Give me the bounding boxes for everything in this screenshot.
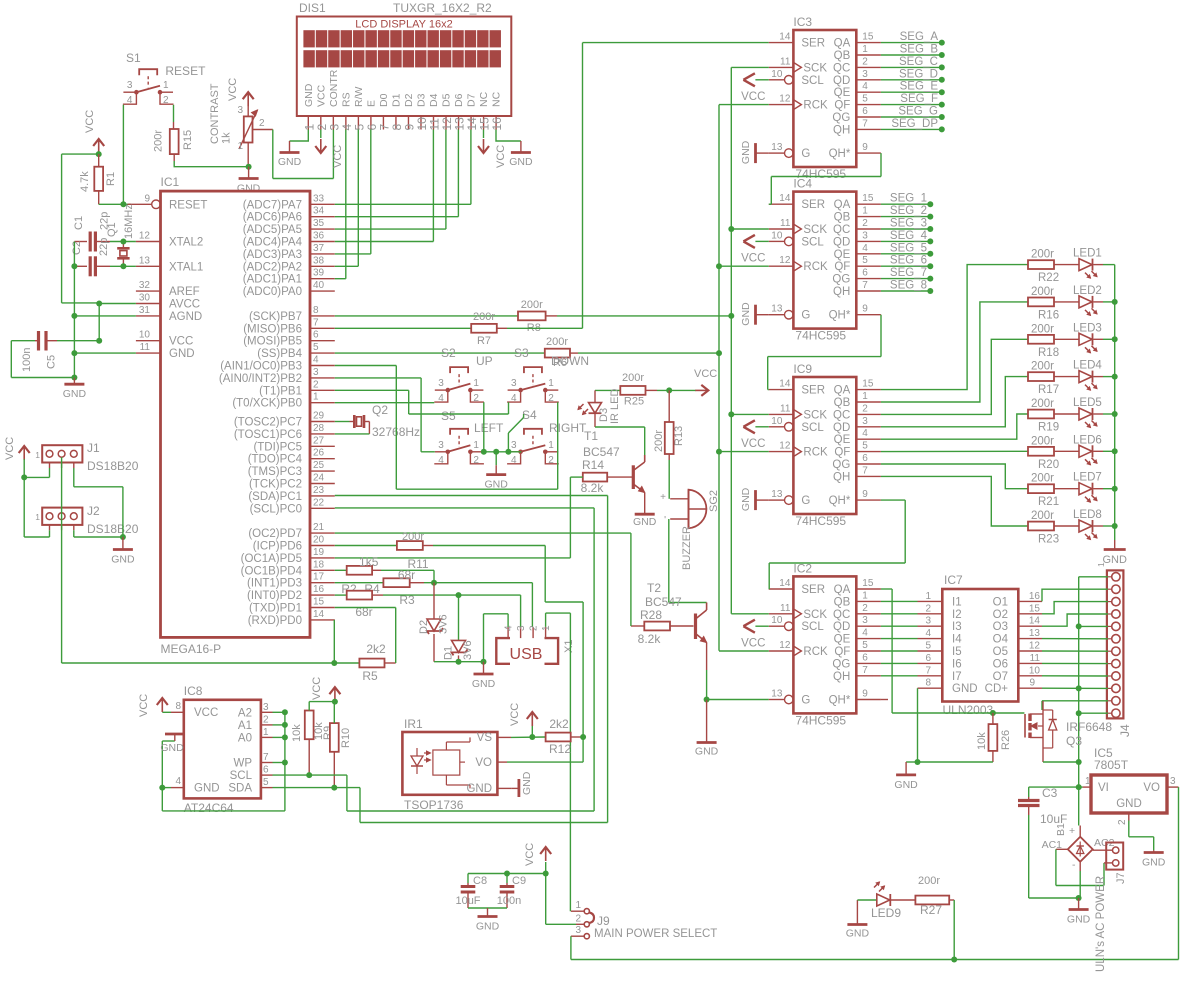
svg-text:BC547: BC547 bbox=[645, 595, 682, 609]
connector X1 USB bbox=[496, 625, 575, 664]
svg-text:3: 3 bbox=[511, 378, 517, 389]
junction VCC pin bbox=[96, 338, 102, 344]
svg-text:ULN2003: ULN2003 bbox=[943, 703, 994, 717]
wire PA3 to LCD bbox=[335, 253, 371, 255]
svg-text:1: 1 bbox=[237, 141, 243, 152]
resistor R9 10k bbox=[291, 702, 334, 776]
wire IC2 QH* stub bbox=[881, 699, 888, 701]
svg-text:D3: D3 bbox=[415, 93, 427, 107]
svg-text:R10: R10 bbox=[340, 728, 352, 748]
svg-text:7: 7 bbox=[862, 465, 868, 476]
svg-text:VCC: VCC bbox=[315, 84, 327, 107]
svg-text:3: 3 bbox=[237, 105, 243, 116]
svg-text:S5: S5 bbox=[441, 409, 456, 423]
diode LED1 bbox=[1054, 248, 1103, 279]
svg-text:1: 1 bbox=[473, 440, 479, 451]
svg-text:18: 18 bbox=[313, 559, 325, 570]
supply VCC arrow right bbox=[694, 368, 717, 396]
junction A0 bbox=[282, 734, 288, 740]
bridge rectifier B1 bbox=[1042, 823, 1115, 871]
svg-text:AGND: AGND bbox=[169, 311, 202, 323]
svg-text:28: 28 bbox=[313, 423, 325, 434]
wire CD+ to J4 pin10 bbox=[1042, 687, 1108, 689]
svg-text:7: 7 bbox=[862, 280, 868, 291]
svg-text:2: 2 bbox=[313, 379, 319, 390]
svg-text:LED5: LED5 bbox=[1073, 397, 1102, 409]
bus SCK vertical bbox=[730, 67, 732, 613]
svg-text:QD: QD bbox=[833, 621, 850, 633]
svg-text:R23: R23 bbox=[1038, 534, 1059, 546]
svg-text:R21: R21 bbox=[1038, 496, 1059, 508]
transistor T1 BC547 bbox=[583, 429, 645, 505]
svg-text:VCC: VCC bbox=[84, 110, 96, 133]
net label SEG_8 bbox=[881, 280, 933, 295]
svg-text:200r: 200r bbox=[1031, 249, 1054, 261]
svg-text:GND: GND bbox=[1116, 798, 1142, 810]
junction USB ground bbox=[481, 659, 487, 665]
svg-text:1: 1 bbox=[862, 44, 868, 55]
svg-text:VCC: VCC bbox=[524, 843, 536, 866]
resistor R11 200r bbox=[335, 531, 433, 571]
wire R26 to ground bbox=[918, 761, 993, 763]
svg-text:R5: R5 bbox=[362, 669, 378, 683]
svg-text:CONTR: CONTR bbox=[328, 69, 340, 107]
wire DS18B20 data line bbox=[62, 457, 335, 663]
wire PB3 to S4 chain bbox=[335, 366, 558, 490]
wire IC9 QH to R23 bbox=[881, 476, 1028, 526]
svg-text:LED7: LED7 bbox=[1073, 472, 1102, 484]
wire LCD pin12 to PA5 bbox=[445, 130, 447, 230]
wire PA4 to LCD bbox=[335, 241, 434, 243]
svg-text:7: 7 bbox=[263, 752, 269, 763]
wire IC9 QF to R20 bbox=[881, 450, 1028, 452]
svg-text:QH: QH bbox=[833, 671, 850, 683]
svg-text:QC: QC bbox=[833, 224, 850, 236]
svg-text:VS: VS bbox=[477, 732, 493, 744]
svg-text:13: 13 bbox=[771, 304, 783, 315]
svg-text:2: 2 bbox=[862, 403, 868, 414]
svg-text:11: 11 bbox=[140, 342, 151, 353]
svg-text:29: 29 bbox=[313, 411, 325, 422]
resistor R26 10k bbox=[976, 713, 1012, 762]
svg-text:4: 4 bbox=[862, 81, 868, 92]
wire LCD pin6 to PA3 bbox=[370, 130, 372, 254]
svg-text:(INT0)PD2: (INT0)PD2 bbox=[247, 590, 302, 602]
svg-text:200r: 200r bbox=[153, 130, 165, 152]
svg-text:D4: D4 bbox=[428, 93, 440, 107]
wire IC7 GND to ground bbox=[906, 688, 917, 762]
svg-text:6: 6 bbox=[263, 765, 269, 776]
wire SDA net to IC1 bbox=[273, 496, 608, 823]
wire D minus to USB pin2 bbox=[424, 583, 532, 627]
wire LCD pin5 to PA2 bbox=[357, 130, 359, 267]
svg-text:T1: T1 bbox=[584, 429, 598, 443]
svg-text:(SS)PB4: (SS)PB4 bbox=[257, 348, 302, 360]
svg-text:O1: O1 bbox=[993, 596, 1008, 608]
junction J4 pin10 bbox=[1076, 685, 1082, 691]
SCL arrow marker at IC4 pin 10 bbox=[743, 235, 768, 248]
net label SEG_A bbox=[881, 31, 945, 46]
svg-text:C5: C5 bbox=[46, 355, 58, 369]
svg-text:LED3: LED3 bbox=[1073, 322, 1102, 334]
junction VCC J9 bbox=[543, 871, 549, 877]
switch S4 RIGHT bbox=[507, 408, 587, 466]
svg-text:3: 3 bbox=[313, 367, 319, 378]
wire RCK bus to IC2 pin12 bbox=[719, 650, 769, 652]
svg-text:D0: D0 bbox=[378, 93, 390, 107]
junction A2 bbox=[282, 709, 288, 715]
svg-text:5: 5 bbox=[925, 641, 931, 652]
svg-text:LEFT: LEFT bbox=[474, 421, 504, 435]
svg-text:3: 3 bbox=[862, 69, 868, 80]
svg-text:200r: 200r bbox=[918, 875, 940, 887]
svg-text:QH: QH bbox=[833, 286, 850, 298]
svg-text:1: 1 bbox=[548, 440, 554, 451]
svg-text:10k: 10k bbox=[976, 732, 988, 750]
wire IC4 QH* to IC9 SER bbox=[768, 315, 881, 390]
svg-text:TUXGR_16X2_R2: TUXGR_16X2_R2 bbox=[393, 1, 492, 15]
diode LED2 bbox=[1054, 285, 1103, 316]
junction RCK IC9 bbox=[716, 449, 722, 455]
ground GND C8 C9 bbox=[478, 915, 498, 918]
svg-text:RCK: RCK bbox=[803, 447, 828, 459]
svg-text:R27: R27 bbox=[920, 903, 942, 917]
resistor R20 200r bbox=[1028, 435, 1059, 471]
svg-text:RESET: RESET bbox=[169, 199, 207, 211]
svg-text:QB: QB bbox=[834, 596, 851, 608]
svg-text:1k5: 1k5 bbox=[359, 555, 379, 569]
SCL arrow marker at IC2 pin 10 bbox=[743, 620, 768, 633]
svg-text:39: 39 bbox=[313, 268, 325, 279]
svg-text:QF: QF bbox=[834, 261, 850, 273]
svg-text:GND: GND bbox=[1067, 914, 1091, 926]
svg-text:(OC1A)PD5: (OC1A)PD5 bbox=[241, 553, 302, 565]
svg-text:200r: 200r bbox=[1031, 361, 1054, 373]
svg-text:GND: GND bbox=[485, 479, 509, 491]
junction AVCC bbox=[96, 301, 102, 307]
wire PD7 to R28 bbox=[335, 533, 631, 626]
resistor R10 10k bbox=[330, 702, 352, 788]
svg-text:J4: J4 bbox=[1118, 724, 1132, 737]
svg-text:(ICP)PD6: (ICP)PD6 bbox=[253, 541, 302, 553]
svg-text:XTAL1: XTAL1 bbox=[169, 261, 203, 273]
junction pot pin1 node bbox=[246, 164, 252, 170]
svg-text:ULN's AC POWER: ULN's AC POWER bbox=[1095, 876, 1107, 972]
svg-text:O3: O3 bbox=[993, 621, 1008, 633]
svg-text:4: 4 bbox=[127, 95, 133, 106]
svg-text:G: G bbox=[801, 148, 810, 160]
wire RCK bus to IC3 pin12 bbox=[719, 104, 769, 106]
svg-text:D2: D2 bbox=[403, 93, 415, 107]
svg-text:QE: QE bbox=[834, 87, 851, 99]
wire IR VO to net bbox=[507, 737, 583, 762]
svg-text:9: 9 bbox=[862, 142, 868, 153]
svg-text:RIGHT: RIGHT bbox=[549, 421, 587, 435]
shift register IC2 74HC595 bbox=[769, 561, 881, 727]
wire LED2 to cathode bus bbox=[1103, 301, 1115, 303]
supply VCC arrow at R12 bbox=[509, 703, 538, 737]
wire O3 to J4 pin4 bbox=[1042, 614, 1108, 626]
svg-text:QH*: QH* bbox=[829, 310, 851, 322]
switch S2 UP bbox=[434, 346, 492, 404]
svg-text:QG: QG bbox=[832, 658, 850, 670]
svg-text:LED4: LED4 bbox=[1073, 360, 1102, 372]
svg-text:10: 10 bbox=[1029, 665, 1041, 676]
svg-text:37: 37 bbox=[313, 243, 325, 254]
junction D plus bbox=[456, 592, 462, 598]
driver IC7 ULN2003 bbox=[918, 573, 1043, 717]
svg-text:GND: GND bbox=[695, 746, 719, 758]
svg-text:(ADC4)PA4: (ADC4)PA4 bbox=[243, 237, 303, 249]
svg-text:200r: 200r bbox=[521, 299, 543, 311]
svg-text:VCC: VCC bbox=[694, 368, 717, 380]
svg-text:14: 14 bbox=[1029, 616, 1041, 627]
svg-text:6: 6 bbox=[862, 652, 868, 663]
junction LED bus 6 bbox=[1112, 448, 1118, 454]
svg-text:LED1: LED1 bbox=[1073, 248, 1102, 260]
svg-text:8: 8 bbox=[925, 678, 931, 689]
svg-text:I6: I6 bbox=[952, 658, 962, 670]
junction IC8 ground bbox=[159, 785, 165, 791]
svg-text:R19: R19 bbox=[1038, 422, 1059, 434]
svg-text:1: 1 bbox=[862, 590, 868, 601]
svg-text:GND: GND bbox=[952, 683, 978, 695]
net label SEG_G bbox=[881, 106, 945, 121]
svg-text:13: 13 bbox=[771, 489, 783, 500]
ground GND at LCD pin1 bbox=[278, 130, 308, 169]
ground GND regulator bbox=[1144, 851, 1164, 854]
connector J2 DS18B20 bbox=[35, 504, 138, 536]
junction A1 bbox=[282, 722, 288, 728]
svg-text:11: 11 bbox=[780, 56, 791, 67]
svg-text:QH*: QH* bbox=[829, 495, 851, 507]
resistor R25 200r bbox=[595, 372, 657, 408]
junction C9 top bbox=[504, 871, 510, 877]
svg-text:74HC595: 74HC595 bbox=[795, 713, 846, 727]
svg-text:G: G bbox=[801, 310, 810, 322]
wire LCD pin11 to PA4 bbox=[432, 130, 434, 242]
svg-text:QH*: QH* bbox=[829, 148, 851, 160]
wire bridge minus to ground bbox=[1079, 862, 1081, 898]
wire C3 top to VI bbox=[1029, 786, 1079, 788]
wire Q3 drain to J4 pin11 bbox=[1042, 701, 1108, 710]
wire XTAL1 net bbox=[110, 265, 136, 267]
svg-text:1: 1 bbox=[862, 206, 868, 217]
LCD display DIS1 TUXGR_16X2_R2 bbox=[297, 1, 512, 116]
svg-text:3: 3 bbox=[1170, 776, 1176, 787]
svg-text:GND: GND bbox=[846, 928, 870, 940]
svg-text:68r: 68r bbox=[398, 568, 415, 582]
svg-text:SEG_DP: SEG_DP bbox=[891, 118, 938, 130]
junction J4 pin12 bbox=[1076, 710, 1082, 716]
svg-text:22p: 22p bbox=[98, 238, 110, 256]
wire SCK bus to IC3 pin11 bbox=[731, 66, 769, 68]
junction R5 PD0 bbox=[331, 660, 337, 666]
wire C8 C9 bottoms to ground bbox=[468, 908, 507, 917]
svg-text:13: 13 bbox=[771, 689, 783, 700]
ground GND T1 emitter bbox=[633, 505, 657, 528]
SCL arrow marker at IC9 pin 10 bbox=[743, 420, 768, 433]
svg-text:IRF6648: IRF6648 bbox=[1066, 720, 1112, 734]
svg-text:15: 15 bbox=[862, 578, 874, 589]
svg-text:UP: UP bbox=[476, 354, 493, 368]
junction SCL R9 bbox=[306, 772, 312, 778]
svg-text:GND: GND bbox=[740, 302, 752, 326]
resistor R27 200r bbox=[891, 875, 954, 917]
svg-text:16MHz: 16MHz bbox=[123, 204, 135, 239]
svg-text:SEG_B: SEG_B bbox=[900, 44, 939, 56]
junction SCK bus R8 bbox=[728, 313, 734, 319]
wire USB pin1 to power select bbox=[546, 613, 571, 911]
wire O5 to J4 pin7 bbox=[1042, 650, 1108, 652]
wire bridge AC2 to J7 pin1 bbox=[1093, 849, 1113, 851]
transistor T2 BC547 bbox=[645, 581, 707, 670]
svg-text:R26: R26 bbox=[1000, 730, 1012, 750]
wire IC9 QG to R21 bbox=[881, 464, 1028, 489]
junction Q3 rail bbox=[1076, 759, 1082, 765]
svg-text:(TDI)PC5: (TDI)PC5 bbox=[253, 441, 302, 453]
junction LED bus 3 bbox=[1112, 336, 1118, 342]
wire USB pin4 to ground bbox=[484, 614, 509, 662]
wire XTAL2 net bbox=[74, 242, 135, 267]
net label SEG_F bbox=[881, 93, 945, 108]
svg-text:VCC: VCC bbox=[138, 694, 150, 717]
svg-text:IC7: IC7 bbox=[944, 573, 963, 587]
svg-text:4: 4 bbox=[511, 393, 517, 404]
svg-text:31: 31 bbox=[139, 305, 151, 316]
junction GND pin bbox=[71, 350, 77, 356]
svg-text:4.7k: 4.7k bbox=[79, 171, 91, 192]
svg-text:74HC595: 74HC595 bbox=[795, 329, 846, 343]
wire D3 cathode to T1 collector bbox=[595, 427, 645, 455]
svg-text:SEG_5: SEG_5 bbox=[890, 242, 927, 254]
wire O7 to J4 pin9 bbox=[1042, 675, 1108, 677]
diode D2 zener 3V6 bbox=[418, 583, 450, 662]
svg-text:QD: QD bbox=[833, 236, 850, 248]
svg-text:LCD DISPLAY 16x2: LCD DISPLAY 16x2 bbox=[355, 19, 452, 31]
svg-text:D2: D2 bbox=[418, 620, 430, 634]
shift register IC9 74HC595 bbox=[769, 362, 881, 528]
svg-text:38: 38 bbox=[313, 255, 325, 266]
svg-text:3: 3 bbox=[263, 702, 269, 713]
svg-text:VCC: VCC bbox=[4, 437, 16, 460]
svg-text:DS18B20: DS18B20 bbox=[87, 522, 139, 536]
wire R11 to IR receiver net bbox=[433, 546, 583, 738]
svg-text:C2: C2 bbox=[71, 241, 83, 255]
wire SCK bus to IC4 pin11 bbox=[731, 228, 769, 230]
svg-text:3: 3 bbox=[438, 378, 444, 389]
svg-text:(TOSC1)PC6: (TOSC1)PC6 bbox=[234, 429, 302, 441]
svg-text:10: 10 bbox=[771, 69, 783, 80]
ground GND at LCD pin16 bbox=[496, 130, 533, 169]
svg-text:R16: R16 bbox=[1038, 309, 1059, 321]
svg-text:C3: C3 bbox=[1042, 786, 1058, 800]
svg-text:': ' bbox=[664, 515, 666, 526]
svg-text:A1: A1 bbox=[238, 720, 252, 732]
svg-text:35: 35 bbox=[313, 218, 325, 229]
wire IC2 QA to gate net bbox=[881, 589, 1025, 713]
svg-text:(OC1B)PD4: (OC1B)PD4 bbox=[241, 565, 303, 577]
wire IC9 QA to R22 bbox=[881, 265, 1028, 390]
svg-text:1: 1 bbox=[1085, 776, 1091, 787]
svg-text:36: 36 bbox=[313, 231, 325, 242]
svg-text:1: 1 bbox=[548, 378, 554, 389]
junction WP bbox=[282, 760, 288, 766]
svg-text:GND: GND bbox=[472, 678, 496, 690]
wire S1 pin4 to RESET node bbox=[122, 105, 124, 205]
svg-text:2: 2 bbox=[473, 455, 479, 466]
resistor R16 200r bbox=[1028, 286, 1059, 322]
net label SEG_6 bbox=[881, 255, 933, 270]
svg-text:SEG_7: SEG_7 bbox=[890, 267, 927, 279]
buzzer SG2 bbox=[660, 490, 720, 570]
wire LCD pin14 to PA7 bbox=[470, 130, 472, 205]
wire IC9 QB to R16 bbox=[881, 302, 1028, 402]
svg-text:2: 2 bbox=[1117, 819, 1128, 825]
junction LED bus 8 bbox=[1112, 523, 1118, 529]
capacitor C5 100n bbox=[11, 331, 57, 372]
svg-text:G: G bbox=[801, 495, 810, 507]
svg-text:C8: C8 bbox=[473, 875, 487, 887]
resistor R6 200r bbox=[335, 336, 578, 369]
svg-text:SEG_G: SEG_G bbox=[898, 106, 938, 118]
junction RCK bus R6 bbox=[716, 350, 722, 356]
svg-text:GND: GND bbox=[509, 156, 533, 168]
svg-text:3V6: 3V6 bbox=[462, 640, 474, 660]
svg-text:QA: QA bbox=[834, 385, 851, 397]
diode LED5 bbox=[1054, 397, 1103, 428]
svg-text:(ADC7)PA7: (ADC7)PA7 bbox=[243, 199, 302, 211]
wire IC2 outputs to IC7 inputs bbox=[881, 601, 918, 675]
resistor R13 200r bbox=[653, 390, 685, 460]
svg-text:2: 2 bbox=[548, 455, 554, 466]
resistor R2 1k5 bbox=[335, 555, 381, 596]
svg-text:2k2: 2k2 bbox=[366, 642, 386, 656]
wire VCC rail top-left bbox=[62, 152, 99, 303]
wire PB2 to S5 bbox=[335, 378, 435, 452]
net label SEG_7 bbox=[881, 267, 933, 282]
svg-text:R18: R18 bbox=[1038, 347, 1059, 359]
svg-text:10: 10 bbox=[139, 330, 151, 341]
junction SCK IC9 bbox=[728, 411, 734, 417]
diode D3 IR LED bbox=[578, 388, 621, 427]
svg-text:SCL: SCL bbox=[801, 236, 824, 248]
ground GND keypad bbox=[485, 452, 509, 491]
svg-text:6: 6 bbox=[862, 268, 868, 279]
svg-text:VCC: VCC bbox=[227, 78, 239, 101]
svg-text:13: 13 bbox=[771, 142, 783, 153]
svg-text:19: 19 bbox=[313, 547, 325, 558]
svg-text:I5: I5 bbox=[952, 646, 962, 658]
wire LED8 to cathode bus bbox=[1103, 525, 1115, 527]
wire PA1 to LCD bbox=[335, 278, 346, 280]
wire R25 to VCC bbox=[657, 389, 696, 391]
junction SCK IC4 bbox=[728, 226, 734, 232]
svg-text:2: 2 bbox=[259, 118, 265, 129]
svg-text:R28: R28 bbox=[640, 608, 662, 622]
svg-text:R17: R17 bbox=[1038, 384, 1059, 396]
net label SEG_3 bbox=[881, 218, 933, 233]
ground GND IC7 bbox=[894, 762, 918, 791]
wire buzzer minus to T2 collector bbox=[669, 519, 707, 603]
svg-text:QH: QH bbox=[833, 471, 850, 483]
switch S5 LEFT bbox=[434, 409, 504, 466]
svg-text:RS: RS bbox=[340, 92, 352, 107]
wire J4 center rail bbox=[1079, 577, 1108, 787]
svg-text:QE: QE bbox=[834, 249, 851, 261]
net label SEG_B bbox=[881, 44, 945, 59]
svg-text:74HC595: 74HC595 bbox=[795, 514, 846, 528]
